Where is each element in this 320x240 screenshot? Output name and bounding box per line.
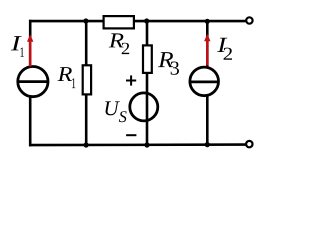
wire bottom rail	[29, 143, 245, 146]
node bottom-left junction	[84, 142, 89, 147]
label I1	[11, 36, 24, 57]
wire left branch (I1)	[29, 20, 32, 147]
wire R1 branch	[85, 21, 88, 145]
polarity minus of US	[126, 134, 136, 136]
resistor R2	[104, 16, 134, 28]
current arrow I2 (red)	[204, 34, 210, 66]
terminal bottom-right	[246, 141, 252, 147]
voltage source US	[130, 92, 158, 122]
node bottom-middle junction	[144, 142, 149, 147]
label R1	[58, 67, 76, 88]
label R2	[109, 33, 130, 54]
current arrow I1 (red)	[27, 34, 33, 66]
label R3	[158, 52, 179, 75]
wire top rail	[29, 20, 246, 23]
resistor R3	[143, 45, 152, 73]
label I2	[217, 38, 232, 60]
label US	[105, 101, 126, 122]
terminal top-right	[246, 17, 252, 23]
polarity plus of US	[126, 75, 136, 85]
node top-left junction	[83, 18, 88, 23]
current source I1	[18, 67, 49, 97]
resistor R1	[83, 65, 91, 94]
node bottom-right junction	[205, 142, 210, 147]
current source I2	[190, 67, 220, 96]
wire R3/US branch	[146, 21, 149, 145]
node top-right junction	[205, 19, 210, 24]
node top-middle junction	[144, 18, 149, 23]
wire I2 branch	[206, 21, 209, 145]
